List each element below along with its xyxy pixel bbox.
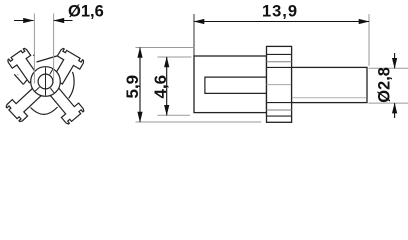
dim line top [394, 53, 396, 68]
contact pin [292, 67, 367, 102]
svg-text:Ø1,6: Ø1,6 [68, 3, 104, 21]
blade edge left notch left flank [14, 74, 23, 84]
spline mid line (light) [267, 84, 292, 86]
spline line 1 [267, 53, 292, 55]
lug A (up-left) [8, 48, 39, 82]
center hole circle (diam 1,6) [38, 74, 53, 89]
rim circle (body outline seen from front) [17, 53, 74, 110]
arrow bottom [164, 105, 169, 116]
svg-text:Ø2,8: Ø2,8 [375, 67, 393, 103]
arrow top (down) [392, 58, 397, 69]
arrow bottom [137, 112, 142, 123]
ext top [158, 56, 192, 58]
spline line 4 [267, 102, 292, 104]
spline line 2 (light) [267, 61, 292, 63]
arrow top [137, 47, 142, 58]
cluster web eraser A [16, 54, 46, 82]
blade edge top [37, 56, 59, 63]
annulus seam toward D [50, 88, 54, 93]
ext bottom [369, 102, 408, 104]
svg-text:4,6: 4,6 [151, 75, 170, 99]
annulus seam toward B [50, 69, 53, 74]
arrow left [194, 19, 205, 24]
arrow bottom (up) [392, 103, 397, 114]
spline line 5 (light) [267, 109, 292, 111]
body rectangle [194, 56, 267, 113]
ext top [136, 47, 195, 49]
dim line [139, 48, 141, 123]
spline line 3 [267, 66, 292, 68]
eraser left sector [5, 71, 25, 99]
lug B (up-right) [53, 48, 84, 84]
svg-text:5,9: 5,9 [123, 75, 142, 99]
dim line bottom [394, 103, 396, 118]
pin faint seam [292, 97, 366, 99]
arrow right [359, 19, 370, 24]
leader extension line right (gray) [53, 14, 55, 84]
arrow top [164, 57, 169, 68]
ext bottom [136, 121, 262, 123]
ext line left [193, 14, 195, 56]
ext bottom [158, 114, 191, 116]
ext line right [368, 14, 370, 66]
annulus seam toward C [35, 87, 40, 91]
dim line [194, 21, 369, 23]
lug C (down-left) [6, 87, 42, 122]
leader extension line left (gray) [33, 14, 35, 84]
dim line [166, 57, 168, 115]
hub circle [31, 67, 61, 97]
eraser bottom sector [31, 99, 58, 114]
vertical seam chord [45, 68, 47, 96]
ext top [369, 67, 408, 69]
splined block [267, 46, 292, 122]
dim line right segment with arrow [54, 20, 73, 22]
spline line 6 [267, 115, 292, 117]
lug D (down-right) [49, 87, 84, 124]
cluster web eraser D [46, 82, 71, 112]
cluster web eraser B [46, 53, 75, 82]
blade arc bottom [31, 107, 58, 114]
cluster web eraser C [17, 82, 46, 111]
eraser top sector [35, 47, 59, 64]
dim line left segment with arrow [14, 20, 34, 22]
blade edge left notch right flank [23, 74, 32, 84]
slot (inner contour, open right) [205, 77, 267, 93]
svg-text:13,9: 13,9 [262, 3, 297, 21]
